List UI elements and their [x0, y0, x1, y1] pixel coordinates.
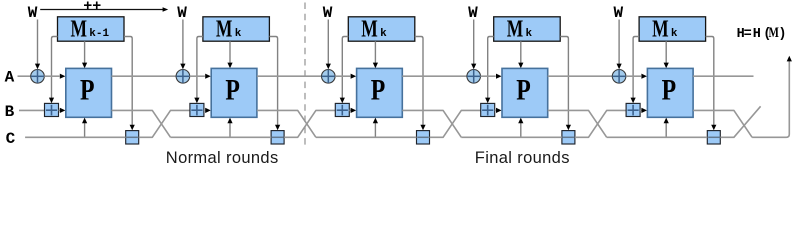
svg-text:k: k — [380, 28, 387, 40]
wire lane C crossing up round 3 — [430, 110, 481, 137]
svg-text:M: M — [361, 16, 378, 42]
wire lane C crossing up round 1 — [139, 110, 190, 137]
wire C into P bottom round 5 — [665, 121, 667, 137]
adder on B round 5 — [626, 103, 640, 116]
XOR circle round 1 — [31, 70, 45, 84]
wire A into P round 2 — [190, 75, 205, 77]
wire lane C crossing up round 2 — [284, 110, 335, 137]
wire B into P round 5 — [640, 109, 642, 111]
wire M2 to C mixer — [269, 37, 277, 127]
wire output to H — [752, 60, 789, 137]
wire lane C under P round 1 — [25, 136, 126, 138]
wire W down to XOR round 1 — [37, 20, 39, 66]
wire lane A out of P round 1 — [112, 75, 177, 77]
svg-text:k-1: k-1 — [89, 28, 109, 40]
svg-text:Final rounds: Final rounds — [475, 149, 570, 167]
permutation P1 box — [66, 68, 112, 117]
permutation P3 box — [357, 68, 403, 117]
svg-text:A: A — [5, 69, 15, 87]
wire lane A out of P round 2 — [257, 75, 322, 77]
adder on B round 3 — [335, 103, 349, 116]
wire M5 to C mixer — [706, 37, 714, 127]
wire M3 to C mixer — [415, 37, 423, 127]
svg-text:P: P — [516, 74, 531, 107]
XOR circle round 4 — [467, 70, 481, 84]
wire M1 to P input — [84, 41, 86, 64]
adder on B round 4 — [481, 103, 495, 116]
wire lane C crossing up stub round 5 — [720, 106, 760, 137]
svg-text:++: ++ — [83, 0, 101, 15]
wire lane B out of P round 2 — [257, 110, 316, 137]
svg-text:M: M — [71, 16, 88, 42]
wire lane A out of P round 4 — [548, 75, 613, 77]
wire W down to XOR round 4 — [473, 20, 475, 66]
wire lane A out of P round 5 stub — [693, 75, 753, 77]
wire lane C under P round 4 — [461, 136, 562, 138]
XOR circle round 5 — [612, 70, 626, 84]
mixer on C round 3 — [417, 131, 430, 144]
wire lane B out of P round 5 — [693, 110, 752, 137]
svg-text:M: M — [769, 25, 779, 41]
svg-text:k: k — [526, 28, 533, 40]
svg-text:B: B — [5, 103, 15, 121]
wire W down to XOR round 3 — [327, 20, 329, 66]
separator normal/final rounds — [304, 3, 306, 150]
svg-text:k: k — [671, 28, 678, 40]
wire A into P round 5 — [626, 75, 641, 77]
register M1 box — [58, 17, 125, 41]
svg-text:W: W — [28, 4, 38, 22]
svg-text:M: M — [507, 16, 524, 42]
permutation P5 box — [647, 68, 693, 117]
wire B into P round 3 — [349, 109, 351, 111]
wire C into P bottom round 4 — [520, 121, 522, 137]
wire B into P round 2 — [204, 109, 206, 111]
wire lane C under P round 3 — [316, 136, 417, 138]
register M4 box — [494, 17, 561, 41]
wire W increment arrow — [40, 9, 164, 11]
XOR circle round 3 — [322, 70, 336, 84]
svg-text:P: P — [80, 74, 95, 107]
permutation P2 box — [211, 68, 257, 117]
wire M5 to P input — [665, 41, 667, 64]
wire B into P round 4 — [495, 109, 497, 111]
wire lane C under P round 2 — [171, 136, 272, 138]
wire B into P round 1 — [59, 109, 61, 111]
wire M4 to B adder — [488, 37, 494, 100]
register M5 box — [639, 17, 706, 41]
wire M2 to B adder — [197, 37, 203, 100]
wire M1 to C mixer — [124, 37, 132, 127]
wire A into P round 1 — [44, 75, 59, 77]
svg-text:Normal rounds: Normal rounds — [166, 149, 279, 167]
mixer on C round 1 — [126, 131, 139, 144]
register M2 box — [203, 17, 270, 41]
mixer on C round 4 — [562, 131, 575, 144]
wire M4 to C mixer — [560, 37, 568, 127]
svg-text:M: M — [216, 16, 233, 42]
wire lane A out of P round 3 — [402, 75, 467, 77]
wire lane B out of P round 1 — [112, 110, 171, 137]
adder on B round 1 — [45, 103, 59, 116]
wire M3 to P input — [374, 41, 376, 64]
svg-text:k: k — [235, 28, 242, 40]
mixer on C round 5 — [707, 131, 720, 144]
svg-text:C: C — [6, 130, 16, 148]
wire M4 to P input — [520, 41, 522, 64]
wire W down to XOR round 5 — [618, 20, 620, 66]
wire lane C under P round 5 — [607, 136, 708, 138]
register M3 box — [348, 17, 415, 41]
wire M3 to B adder — [342, 37, 348, 100]
XOR circle round 2 — [176, 70, 190, 84]
wire W down to XOR round 2 — [182, 20, 184, 66]
svg-text:P: P — [371, 74, 386, 107]
permutation P4 box — [502, 68, 548, 117]
mixer on C round 2 — [271, 131, 284, 144]
wire lane C crossing up round 4 — [575, 110, 626, 137]
wire M1 to B adder — [52, 37, 58, 100]
wire A into P round 4 — [481, 75, 496, 77]
wire lane B out of P round 4 — [548, 110, 607, 137]
svg-text:H=H(): H=H() — [737, 27, 787, 42]
wire M2 to P input — [229, 41, 231, 64]
wire C into P bottom round 1 — [84, 121, 86, 137]
wire lane A left stub — [18, 75, 31, 77]
wire A into P round 3 — [335, 75, 350, 77]
svg-text:P: P — [662, 74, 677, 107]
adder on B round 2 — [190, 103, 204, 116]
wire M5 to B adder — [633, 37, 639, 100]
wire lane B left stub — [19, 109, 45, 111]
svg-text:P: P — [225, 74, 240, 107]
wire lane B out of P round 3 — [402, 110, 461, 137]
wire C into P bottom round 2 — [229, 121, 231, 137]
svg-text:M: M — [652, 16, 669, 42]
wire C into P bottom round 3 — [374, 121, 376, 137]
